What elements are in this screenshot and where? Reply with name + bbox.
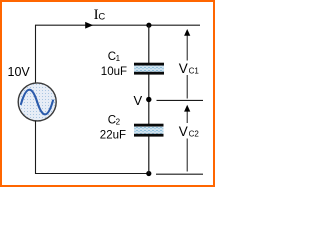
- VC2 arrow shaft: [186, 110, 188, 172]
- wire top rail: [35, 24, 200, 26]
- wire capacitor branch upper: [148, 25, 150, 63]
- svg-text:C: C: [98, 12, 105, 23]
- source V1 circle: [18, 83, 56, 121]
- source sine wave: [21, 90, 53, 115]
- current arrow IC: [85, 22, 93, 29]
- VC1 arrowhead: [184, 29, 190, 36]
- svg-text:10uF: 10uF: [101, 66, 127, 78]
- svg-text:22uF: 22uF: [100, 130, 126, 142]
- wire between capacitors: [148, 75, 150, 125]
- svg-text:V: V: [134, 93, 143, 108]
- bottom reference line: [156, 173, 203, 175]
- wire capacitor branch lower: [148, 137, 150, 174]
- wire left lower: [35, 121, 37, 175]
- label VC1: [178, 61, 200, 76]
- label VC2: [178, 123, 200, 139]
- capacitor C2: [134, 124, 164, 137]
- capacitor C1: [134, 63, 164, 75]
- svg-text:V: V: [179, 124, 188, 139]
- wire bottom rail: [35, 173, 151, 175]
- node V junction: [146, 97, 151, 102]
- svg-text:V: V: [179, 61, 188, 76]
- VC1 arrow shaft: [186, 34, 188, 99]
- svg-text:C2: C2: [189, 129, 200, 138]
- svg-text:10V: 10V: [8, 65, 31, 79]
- junction bottom: [146, 171, 151, 176]
- svg-text:1: 1: [116, 54, 121, 63]
- svg-text:C1: C1: [189, 66, 200, 75]
- svg-text:2: 2: [116, 118, 121, 127]
- VC2 arrowhead: [184, 105, 190, 112]
- junction top: [146, 23, 151, 28]
- wire left upper: [35, 25, 37, 84]
- node V reference line: [157, 99, 204, 101]
- border frame: [1, 1, 214, 186]
